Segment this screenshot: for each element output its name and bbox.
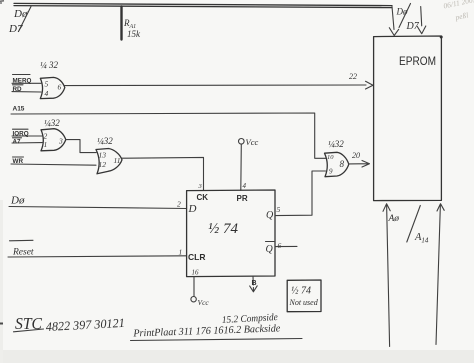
net RD label [13,85,24,93]
svg-text:CK: CK [197,193,209,202]
handwriting: STC 4822 397 30121 [14,314,126,334]
svg-text:12: 12 [99,160,107,169]
svg-text:9: 9 [329,168,333,176]
svg-text:2: 2 [177,200,181,209]
svg-text:Q: Q [266,244,274,255]
handwriting: PrintPlaat 311 176 1616.2 Backside [131,323,303,340]
svg-text:20: 20 [352,151,360,160]
bus D0/D7 arrows into EPROM top [389,4,426,36]
svg-text:Dø: Dø [10,195,25,207]
svg-text:D7: D7 [8,23,23,35]
svg-text:10: 10 [327,154,334,161]
svg-text:1: 1 [44,140,48,149]
wire U3 pin11 to FF CK pin3 [122,157,204,190]
stray mark left edge [0,323,3,325]
or-gate U3 (1/4 7432, pins 13,12 -> 11) [96,136,122,174]
svg-text:Vcc: Vcc [198,298,210,307]
svg-text:22: 22 [349,72,357,81]
resistor RA1 15k (pull-up stub on bus) [122,7,142,40]
ground symbol [250,286,258,292]
svg-text:4: 4 [45,89,49,98]
svg-text:Not used: Not used [289,298,319,307]
wire RD to U1 pin4 [12,91,41,93]
net MREQ label [13,75,32,85]
net A7 label [13,138,22,146]
svg-text:¼32: ¼32 [328,139,344,149]
note box: 1/2 74 not used [287,280,321,312]
pin 2 D [177,200,197,216]
wire U4 pin8 to EPROM (net OE) with arrow pin 20 [349,151,370,167]
svg-text:5: 5 [45,80,49,89]
or-gate U1 (1/4 7432, pins 5,4 -> 6) [40,60,65,99]
wire Reset to FF CLR pin1 [8,256,187,257]
svg-text:D7: D7 [406,21,420,32]
wire IORQ to U2 pin2 [12,135,42,137]
svg-text:16: 16 [192,269,200,277]
svg-text:6: 6 [58,83,62,92]
pin 1 CLR [179,248,206,263]
svg-text:5: 5 [277,205,281,214]
svg-text:¼32: ¼32 [44,118,60,128]
svg-text:Reset: Reset [12,248,34,258]
svg-text:Q: Q [266,210,274,221]
or-gate U2 (1/4 7432, pins 2,1 -> 3) [41,118,66,151]
svg-text:6: 6 [278,241,282,250]
svg-text:½ 74: ½ 74 [291,286,311,297]
power Vcc node at PR [239,137,259,147]
address bus A0..A14 below EPROM [383,204,444,347]
wire WR to U3 pin12 [11,164,96,165]
stray ink top-left corner [0,1,4,3]
svg-text:CLR: CLR [188,252,205,262]
pin 3 CK [197,183,209,202]
net IORQ label [13,129,29,137]
svg-text:11: 11 [114,156,121,165]
pin 16 to Vcc [191,269,210,308]
wire D0 to FF D pin2 [9,207,187,209]
wire Qbar stub [275,245,297,247]
wire U1 pin6 to EPROM (net CE) [65,84,366,87]
arrow into EPROM pin 22 [349,72,373,89]
svg-text:Aø: Aø [388,214,400,224]
wire A15 to U4 pin10 [11,113,326,158]
or-gate U4 (1/4 7432, pins 10,9 -> 8) [325,139,349,177]
svg-text:EPROM: EPROM [399,54,436,68]
net WR label [13,157,24,165]
svg-text:15k: 15k [127,29,141,39]
EPROM U6 body [374,36,443,201]
svg-text:4: 4 [243,182,247,190]
svg-text:B: B [252,280,257,287]
pin 6 Qbar [266,241,282,255]
svg-text:3: 3 [58,137,63,146]
wire Q to U4 pin9 [275,171,326,216]
svg-text:A7: A7 [13,139,22,146]
flip-flop U5 (1/2 7474) body [187,190,275,277]
svg-text:Vcc: Vcc [246,137,259,147]
faint date scribble top-right [443,0,474,22]
svg-text:½ 74: ½ 74 [208,221,239,237]
svg-text:¼ 32: ¼ 32 [40,60,59,70]
svg-text:D: D [188,203,197,215]
svg-text:13: 13 [99,151,107,160]
svg-text:A15: A15 [13,106,25,113]
wire A7 to U2 pin1 [12,142,42,144]
svg-text:8: 8 [340,159,345,169]
pin 4 PR [237,182,248,203]
wire MREQ to U1 pin5 [12,82,41,84]
svg-text:PR: PR [237,194,248,203]
wire U2 pin3 to U3 pin13 [66,140,96,153]
pin B to ground [250,276,258,292]
pin 5 Q [266,205,281,221]
data bus D0-D7 (top double line) [14,3,392,7]
net Reset label [10,240,34,257]
node D0/D7 top-left label [8,7,31,36]
svg-text:¼32: ¼32 [97,136,113,146]
svg-text:1: 1 [179,248,183,257]
wire Vcc to FF PR pin4 [240,144,243,190]
